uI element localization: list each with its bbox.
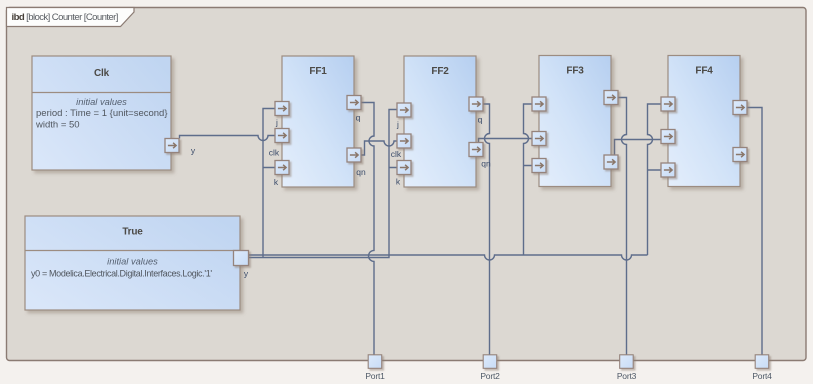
svg-text:initial values: initial values	[76, 97, 127, 107]
svg-text:Port4: Port4	[752, 371, 772, 381]
svg-text:initial values: initial values	[107, 257, 158, 267]
svg-text:Port1: Port1	[365, 371, 385, 381]
svg-text:qn: qn	[481, 159, 491, 169]
svg-text:y0 = Modelica.Electrical.Digit: y0 = Modelica.Electrical.Digital.Interfa…	[31, 269, 212, 279]
svg-text:qn: qn	[356, 167, 366, 177]
svg-text:clk: clk	[269, 148, 280, 158]
svg-text:FF3: FF3	[566, 66, 584, 77]
svg-text:j: j	[396, 120, 399, 130]
svg-text:width = 50: width = 50	[35, 120, 80, 131]
svg-text:Port3: Port3	[617, 371, 637, 381]
svg-text:q: q	[478, 115, 483, 125]
svg-text:True: True	[122, 227, 143, 238]
svg-text:Port2: Port2	[480, 371, 500, 381]
svg-text:FF4: FF4	[695, 66, 713, 77]
svg-text:ibd [block] Counter [Counter]: ibd [block] Counter [Counter]	[12, 12, 118, 23]
svg-text:j: j	[275, 118, 278, 128]
svg-text:clk: clk	[391, 149, 402, 159]
svg-text:Clk: Clk	[94, 68, 110, 79]
svg-text:FF2: FF2	[431, 66, 449, 77]
svg-text:FF1: FF1	[309, 66, 327, 77]
svg-text:period : Time = 1 {unit=second: period : Time = 1 {unit=second}	[36, 108, 168, 119]
svg-text:q: q	[356, 113, 361, 123]
